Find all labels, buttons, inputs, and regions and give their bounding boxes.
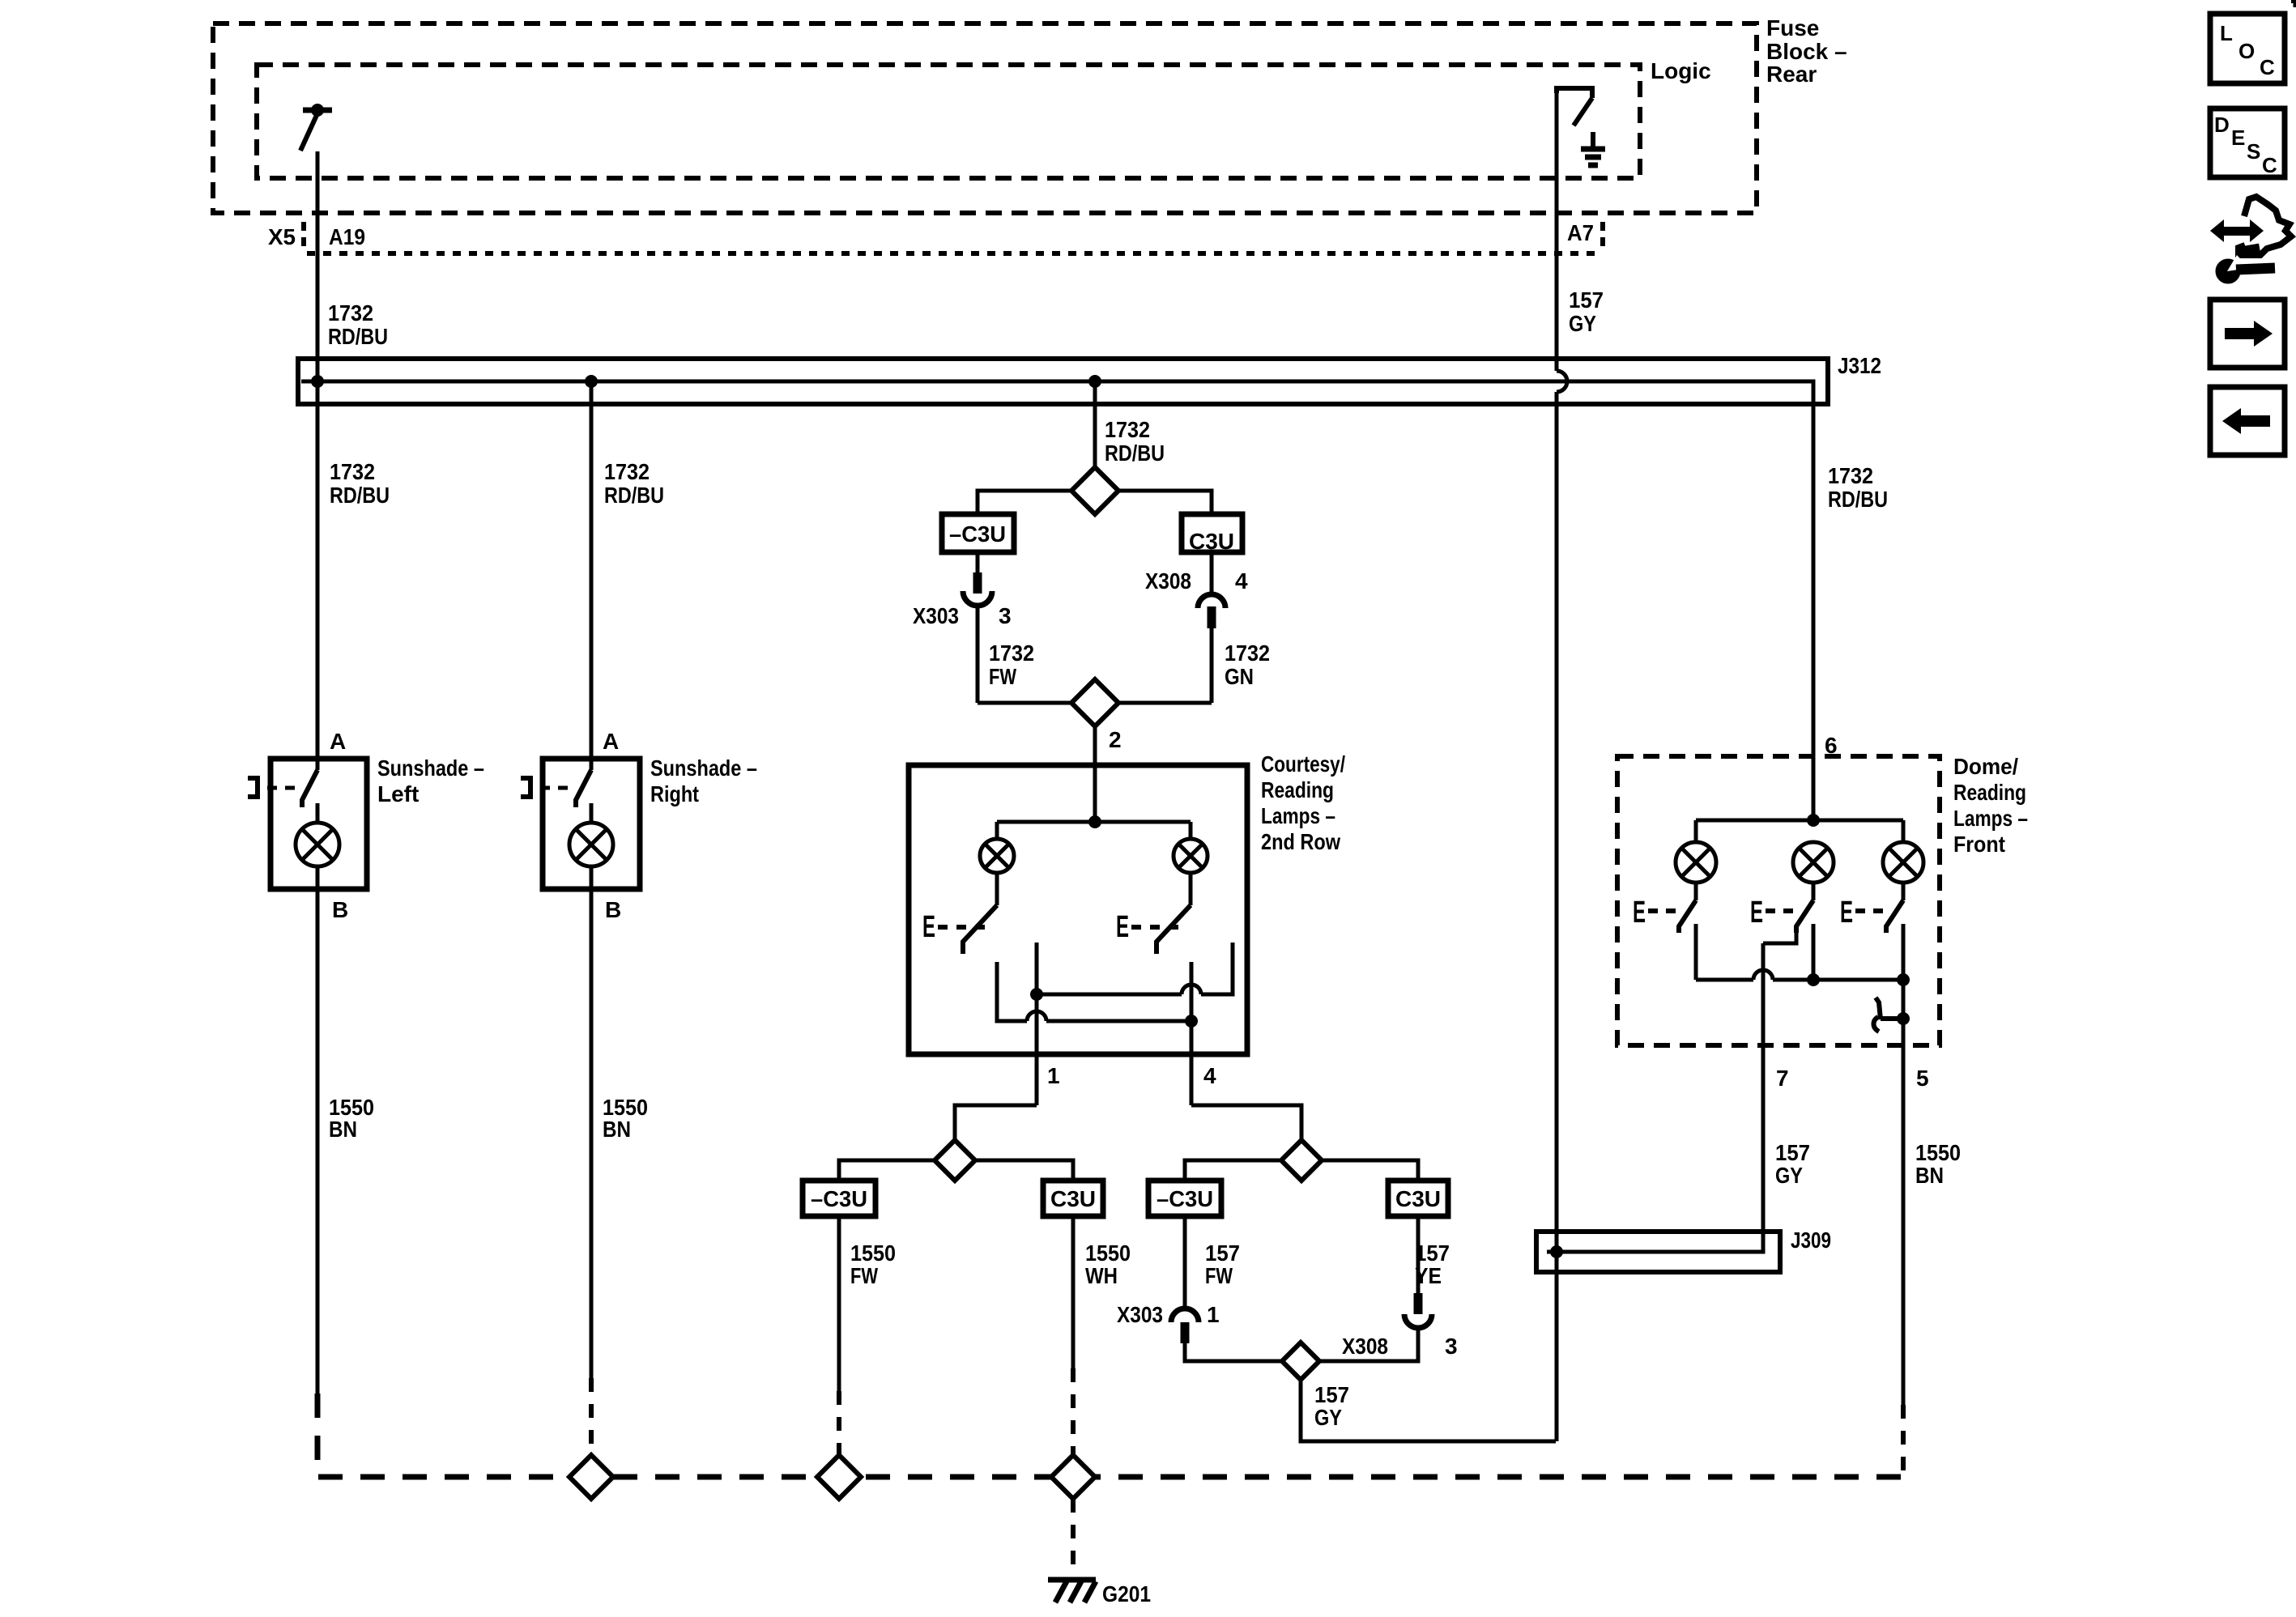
- svg-text:1732: 1732: [1225, 640, 1270, 666]
- svg-text:1550: 1550: [850, 1240, 896, 1266]
- svg-text:Sunshade –: Sunshade –: [650, 755, 757, 781]
- svg-text:RD/BU: RD/BU: [604, 483, 664, 508]
- svg-text:–C3U: –C3U: [949, 521, 1006, 547]
- svg-text:Lamps –: Lamps –: [1953, 806, 2028, 831]
- svg-text:2nd Row: 2nd Row: [1261, 829, 1340, 854]
- svg-text:BN: BN: [1915, 1163, 1944, 1188]
- svg-text:7: 7: [1776, 1066, 1789, 1091]
- svg-text:1732: 1732: [989, 640, 1034, 666]
- svg-text:C3U: C3U: [1050, 1186, 1096, 1211]
- svg-text:X303: X303: [913, 603, 959, 628]
- svg-text:D: D: [2214, 113, 2230, 137]
- svg-text:A: A: [603, 729, 619, 754]
- svg-text:1732: 1732: [330, 459, 375, 484]
- svg-text:157: 157: [1415, 1240, 1450, 1266]
- svg-text:WH: WH: [1085, 1263, 1118, 1288]
- svg-text:X308: X308: [1342, 1334, 1388, 1359]
- svg-text:157: 157: [1775, 1140, 1810, 1165]
- svg-text:3: 3: [1445, 1334, 1458, 1359]
- svg-text:1550: 1550: [1915, 1140, 1961, 1165]
- svg-text:E: E: [1750, 896, 1763, 930]
- svg-text:Sunshade –: Sunshade –: [377, 755, 484, 781]
- svg-text:4: 4: [1235, 568, 1248, 594]
- svg-text:Dome/: Dome/: [1953, 754, 2018, 779]
- svg-text:X303: X303: [1117, 1302, 1163, 1327]
- svg-text:1: 1: [1207, 1302, 1220, 1327]
- svg-text:BN: BN: [603, 1117, 631, 1142]
- svg-text:Courtesy/: Courtesy/: [1261, 751, 1345, 777]
- svg-text:Front: Front: [1953, 832, 2005, 857]
- svg-text:C3U: C3U: [1395, 1186, 1441, 1211]
- svg-text:YE: YE: [1415, 1263, 1442, 1288]
- svg-text:1732: 1732: [604, 459, 650, 484]
- svg-text:–C3U: –C3U: [1157, 1186, 1213, 1211]
- svg-text:1732: 1732: [1828, 463, 1873, 488]
- svg-text:X5: X5: [268, 224, 296, 249]
- svg-text:5: 5: [1916, 1066, 1929, 1091]
- svg-text:B: B: [332, 897, 348, 922]
- svg-text:E: E: [1116, 910, 1129, 944]
- svg-text:Lamps –: Lamps –: [1261, 803, 1335, 828]
- svg-text:Logic: Logic: [1651, 58, 1711, 83]
- svg-text:2: 2: [1109, 727, 1122, 752]
- svg-text:FW: FW: [850, 1263, 878, 1288]
- svg-text:BN: BN: [329, 1117, 357, 1142]
- svg-text:E: E: [2231, 126, 2245, 150]
- svg-text:4: 4: [1203, 1063, 1216, 1088]
- svg-text:Left: Left: [377, 781, 419, 806]
- svg-text:157: 157: [1314, 1382, 1349, 1407]
- svg-text:GN: GN: [1225, 664, 1254, 689]
- svg-text:Reading: Reading: [1953, 780, 2026, 805]
- svg-text:FW: FW: [989, 664, 1016, 689]
- svg-text:C: C: [2260, 55, 2275, 79]
- svg-text:Right: Right: [650, 781, 699, 806]
- svg-text:L: L: [2220, 21, 2233, 45]
- svg-text:A7: A7: [1567, 220, 1594, 245]
- svg-text:Block –: Block –: [1766, 39, 1847, 64]
- svg-text:E: E: [1633, 896, 1646, 930]
- svg-text:J312: J312: [1838, 353, 1881, 378]
- svg-text:GY: GY: [1569, 311, 1596, 336]
- svg-text:C3U: C3U: [1189, 529, 1234, 554]
- svg-text:RD/BU: RD/BU: [1105, 440, 1165, 466]
- svg-text:GY: GY: [1314, 1405, 1342, 1430]
- svg-text:O: O: [2238, 39, 2255, 63]
- svg-text:Reading: Reading: [1261, 777, 1334, 802]
- svg-text:–C3U: –C3U: [811, 1186, 867, 1211]
- svg-text:GY: GY: [1775, 1163, 1803, 1188]
- svg-text:157: 157: [1205, 1240, 1240, 1266]
- svg-text:A: A: [330, 729, 346, 754]
- svg-text:Rear: Rear: [1766, 62, 1817, 87]
- svg-text:C: C: [2262, 153, 2277, 177]
- svg-text:1732: 1732: [1105, 417, 1150, 442]
- svg-text:G201: G201: [1102, 1581, 1151, 1606]
- svg-text:A19: A19: [329, 224, 365, 249]
- svg-text:3: 3: [999, 603, 1012, 628]
- svg-text:RD/BU: RD/BU: [1828, 487, 1888, 512]
- svg-text:FW: FW: [1205, 1263, 1233, 1288]
- svg-text:157: 157: [1569, 287, 1604, 313]
- svg-text:RD/BU: RD/BU: [330, 483, 390, 508]
- svg-text:1732: 1732: [328, 300, 373, 326]
- svg-text:J309: J309: [1791, 1228, 1831, 1253]
- svg-text:1: 1: [1047, 1063, 1060, 1088]
- svg-text:Fuse: Fuse: [1766, 15, 1819, 40]
- svg-text:S: S: [2247, 139, 2260, 164]
- svg-text:1550: 1550: [1085, 1240, 1131, 1266]
- svg-text:B: B: [605, 897, 621, 922]
- svg-text:E: E: [1840, 896, 1853, 930]
- svg-text:X308: X308: [1145, 568, 1191, 594]
- svg-text:E: E: [922, 910, 935, 944]
- svg-text:6: 6: [1825, 733, 1838, 758]
- svg-text:RD/BU: RD/BU: [328, 324, 388, 349]
